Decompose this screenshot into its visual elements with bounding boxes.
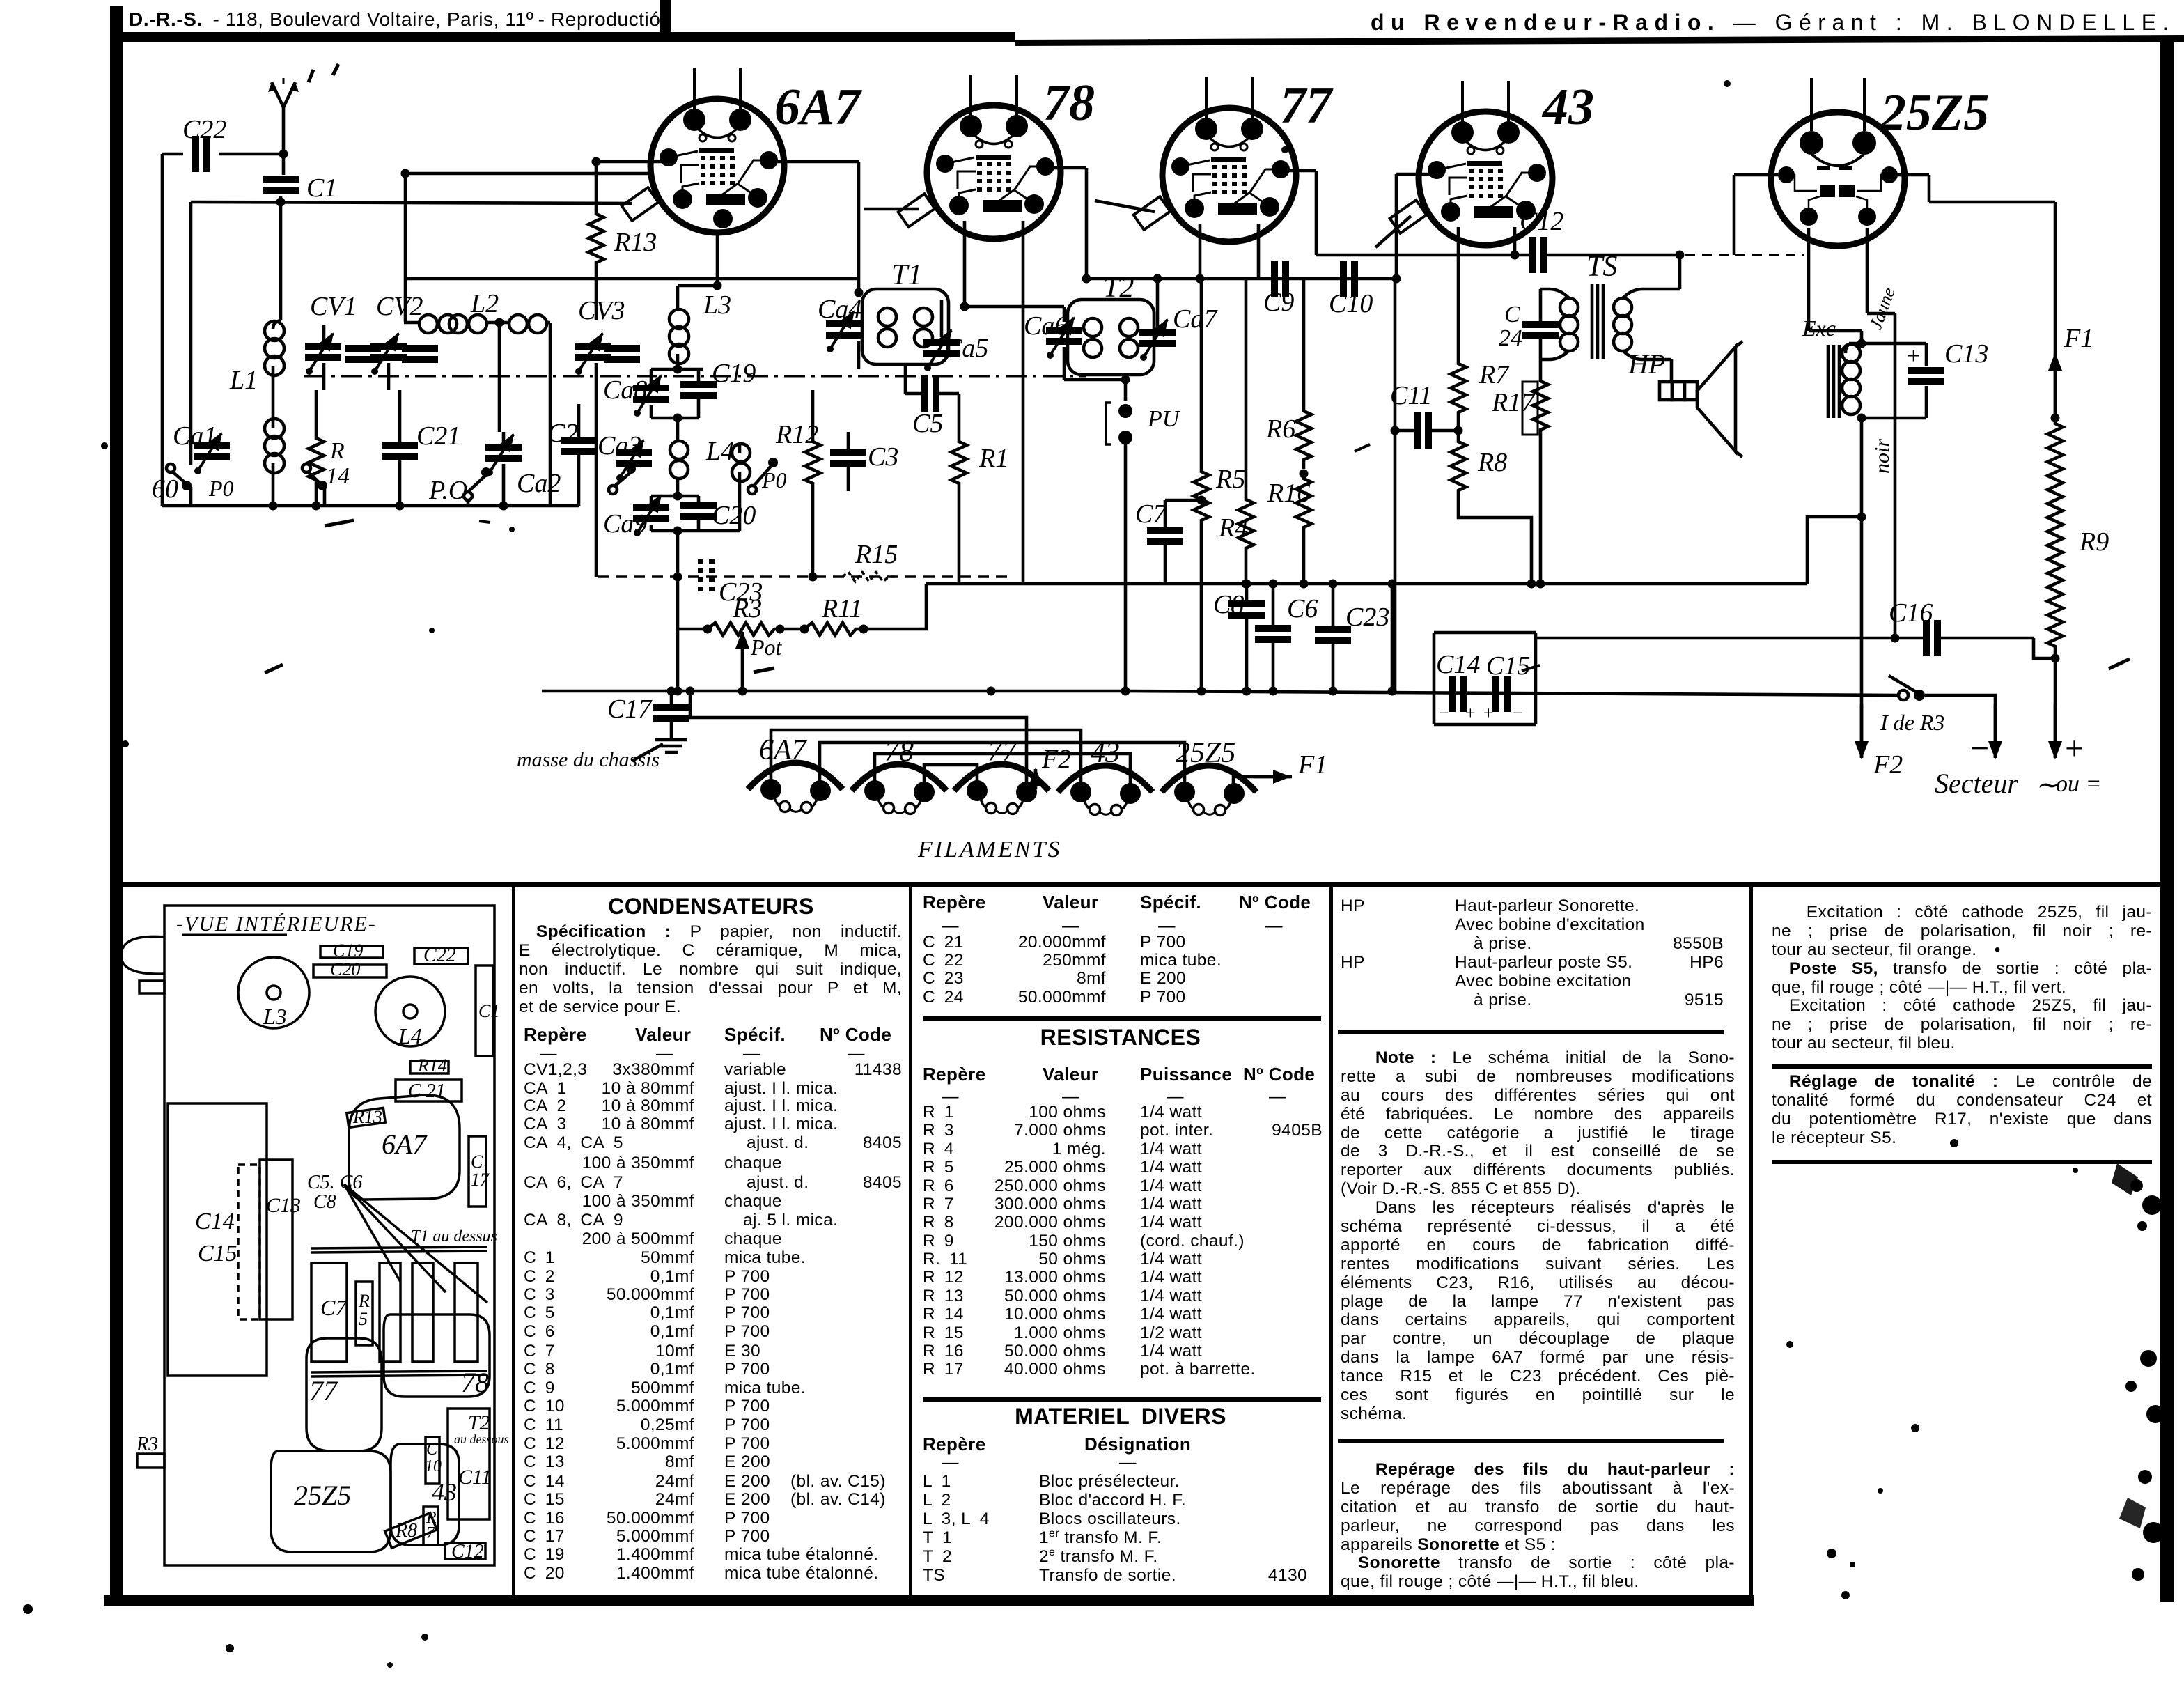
svg-text:R16: R16 bbox=[1267, 479, 1310, 508]
svg-text:Ca9: Ca9 bbox=[603, 509, 647, 538]
svg-text:Ca8: Ca8 bbox=[603, 375, 647, 405]
svg-text:R7: R7 bbox=[1479, 360, 1510, 389]
svg-text:C13: C13 bbox=[266, 1194, 301, 1217]
svg-text:C 21: C 21 bbox=[408, 1080, 446, 1102]
svg-text:C8: C8 bbox=[1213, 590, 1244, 619]
svg-text:14: 14 bbox=[326, 463, 350, 489]
svg-text:ou =: ou = bbox=[2056, 771, 2101, 797]
svg-text:78: 78 bbox=[461, 1367, 489, 1398]
svg-text:C20: C20 bbox=[712, 501, 756, 530]
svg-text:17: 17 bbox=[471, 1170, 490, 1190]
svg-text:C11: C11 bbox=[1390, 381, 1433, 410]
svg-text:-VUE INTÉRIEURE-: -VUE INTÉRIEURE- bbox=[176, 913, 377, 936]
svg-text:78: 78 bbox=[884, 736, 914, 768]
svg-text:L3: L3 bbox=[703, 290, 731, 320]
svg-text:Ca2: Ca2 bbox=[517, 469, 561, 498]
svg-text:R13: R13 bbox=[614, 228, 657, 257]
svg-text:CV3: CV3 bbox=[578, 296, 625, 325]
svg-text:R14: R14 bbox=[417, 1055, 447, 1076]
svg-text:C7: C7 bbox=[1135, 499, 1167, 529]
svg-text:C5. C6: C5. C6 bbox=[307, 1172, 362, 1193]
svg-text:−: − bbox=[1513, 703, 1523, 723]
svg-text:T1 au dessus: T1 au dessus bbox=[411, 1227, 497, 1246]
svg-text:CV1: CV1 bbox=[310, 292, 357, 321]
svg-text:R8: R8 bbox=[395, 1520, 417, 1542]
svg-text:25Z5: 25Z5 bbox=[1176, 737, 1235, 769]
svg-text:C: C bbox=[1504, 302, 1520, 327]
svg-text:C9: C9 bbox=[1263, 288, 1294, 317]
svg-text:Exc: Exc bbox=[1802, 316, 1836, 341]
svg-text:C14: C14 bbox=[195, 1209, 235, 1234]
svg-text:C15: C15 bbox=[1486, 651, 1530, 681]
svg-text:P.O: P.O bbox=[428, 476, 467, 505]
svg-text:C19: C19 bbox=[333, 940, 363, 961]
svg-text:Secteur: Secteur bbox=[1935, 768, 2018, 799]
svg-text:R3: R3 bbox=[136, 1434, 158, 1455]
svg-text:HP: HP bbox=[1628, 348, 1665, 380]
svg-text:T1: T1 bbox=[891, 259, 922, 291]
svg-text:L4: L4 bbox=[398, 1023, 422, 1048]
svg-text:C3: C3 bbox=[868, 442, 898, 472]
svg-text:L3: L3 bbox=[263, 1004, 287, 1029]
svg-text:R5: R5 bbox=[1215, 465, 1245, 494]
svg-text:R: R bbox=[329, 438, 345, 464]
svg-text:Pot: Pot bbox=[750, 635, 783, 660]
svg-text:noir: noir bbox=[1871, 439, 1894, 474]
svg-text:78: 78 bbox=[1043, 75, 1095, 132]
svg-text:25Z5: 25Z5 bbox=[1880, 84, 1989, 141]
svg-text:77: 77 bbox=[309, 1375, 338, 1406]
svg-text:C14: C14 bbox=[1436, 650, 1480, 679]
svg-text:+: + bbox=[1483, 703, 1494, 723]
svg-text:6A7: 6A7 bbox=[774, 79, 862, 136]
svg-text:C10: C10 bbox=[1329, 289, 1373, 318]
svg-text:PU: PU bbox=[1147, 406, 1181, 432]
svg-text:R8: R8 bbox=[1477, 448, 1507, 477]
svg-text:6A7: 6A7 bbox=[759, 734, 808, 766]
svg-text:∼: ∼ bbox=[2035, 769, 2059, 800]
svg-text:C: C bbox=[426, 1441, 438, 1459]
svg-text:43: 43 bbox=[1541, 79, 1594, 136]
svg-text:77: 77 bbox=[988, 736, 1018, 768]
svg-text:R9: R9 bbox=[2079, 527, 2109, 557]
svg-text:R3: R3 bbox=[732, 594, 762, 623]
svg-text:CV2: CV2 bbox=[376, 292, 423, 321]
svg-text:C21: C21 bbox=[416, 421, 460, 451]
svg-text:7: 7 bbox=[426, 1524, 435, 1542]
svg-text:10: 10 bbox=[425, 1457, 442, 1475]
svg-text:43: 43 bbox=[1091, 737, 1120, 769]
svg-text:C19: C19 bbox=[712, 359, 756, 388]
svg-text:5: 5 bbox=[359, 1309, 368, 1329]
svg-text:T2: T2 bbox=[468, 1411, 490, 1434]
svg-text:+: + bbox=[1465, 703, 1476, 723]
svg-text:C1: C1 bbox=[478, 1001, 499, 1021]
svg-text:au dessous: au dessous bbox=[454, 1432, 509, 1446]
svg-text:Ca4: Ca4 bbox=[818, 295, 861, 324]
svg-text:C20: C20 bbox=[330, 959, 360, 979]
svg-text:C16: C16 bbox=[1889, 598, 1933, 628]
svg-text:−: − bbox=[1968, 730, 1990, 767]
svg-text:Ca7: Ca7 bbox=[1173, 304, 1218, 334]
svg-text:F2: F2 bbox=[1041, 745, 1071, 774]
svg-text:C23: C23 bbox=[1345, 603, 1389, 632]
svg-text:77: 77 bbox=[1280, 77, 1334, 134]
svg-text:6A7: 6A7 bbox=[382, 1129, 428, 1160]
svg-text:R11: R11 bbox=[821, 594, 862, 623]
svg-text:R12: R12 bbox=[775, 420, 818, 449]
svg-text:C2: C2 bbox=[547, 419, 578, 448]
svg-text:L2: L2 bbox=[470, 289, 499, 318]
svg-text:Ca5: Ca5 bbox=[944, 334, 988, 363]
svg-text:C8: C8 bbox=[313, 1191, 336, 1213]
svg-text:F1: F1 bbox=[1297, 750, 1327, 780]
svg-text:25Z5: 25Z5 bbox=[294, 1480, 351, 1511]
svg-text:Ca3: Ca3 bbox=[598, 431, 641, 460]
svg-text:43: 43 bbox=[432, 1478, 457, 1506]
svg-text:C12: C12 bbox=[1520, 207, 1563, 236]
svg-text:C1: C1 bbox=[306, 173, 337, 203]
svg-text:P0: P0 bbox=[208, 476, 234, 501]
svg-text:C22: C22 bbox=[182, 115, 226, 144]
svg-text:C15: C15 bbox=[198, 1241, 237, 1266]
svg-text:C13: C13 bbox=[1944, 339, 1988, 369]
svg-text:Ca1: Ca1 bbox=[173, 421, 217, 451]
svg-text:masse du chassis: masse du chassis bbox=[517, 748, 660, 771]
svg-text:C: C bbox=[471, 1151, 483, 1172]
svg-text:C11: C11 bbox=[458, 1466, 492, 1489]
svg-text:R17: R17 bbox=[1491, 388, 1536, 417]
svg-text:C6: C6 bbox=[1287, 594, 1318, 623]
svg-text:C22: C22 bbox=[423, 945, 456, 966]
svg-text:60: 60 bbox=[152, 474, 178, 504]
svg-text:C5: C5 bbox=[912, 409, 943, 438]
svg-text:P0: P0 bbox=[761, 467, 787, 493]
svg-text:+: + bbox=[2063, 730, 2085, 767]
svg-text:+: + bbox=[1907, 343, 1920, 369]
svg-text:R4: R4 bbox=[1218, 513, 1248, 543]
svg-text:F1: F1 bbox=[2064, 324, 2093, 353]
svg-text:C17: C17 bbox=[607, 695, 653, 724]
svg-text:−: − bbox=[1439, 703, 1449, 723]
svg-text:R13: R13 bbox=[352, 1107, 382, 1127]
svg-text:R1: R1 bbox=[978, 444, 1008, 473]
svg-text:FILAMENTS: FILAMENTS bbox=[917, 837, 1061, 862]
svg-text:R15: R15 bbox=[855, 540, 898, 569]
svg-text:T2: T2 bbox=[1103, 272, 1134, 304]
svg-text:C7: C7 bbox=[320, 1295, 348, 1320]
svg-text:Ca6: Ca6 bbox=[1024, 311, 1068, 341]
svg-text:L1: L1 bbox=[229, 366, 258, 395]
svg-text:R: R bbox=[358, 1291, 370, 1311]
svg-text:L4: L4 bbox=[705, 437, 734, 466]
svg-text:I de R3: I de R3 bbox=[1880, 710, 1944, 735]
svg-text:C12: C12 bbox=[451, 1541, 484, 1562]
svg-text:R6: R6 bbox=[1265, 414, 1295, 444]
svg-text:F2: F2 bbox=[1873, 750, 1903, 780]
svg-text:24: 24 bbox=[1499, 325, 1522, 351]
svg-text:TS: TS bbox=[1586, 251, 1617, 283]
